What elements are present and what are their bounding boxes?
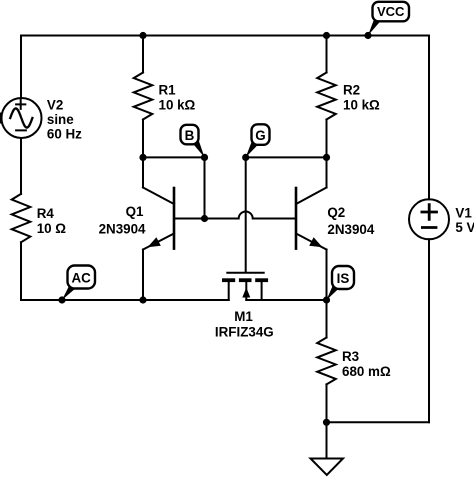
junction dot Q1 emitter on bottom wire xyxy=(139,296,146,303)
svg-text:V2: V2 xyxy=(47,97,63,112)
label Q2 value xyxy=(327,205,374,237)
svg-text:VCC: VCC xyxy=(377,4,405,19)
svg-text:5 V: 5 V xyxy=(455,220,474,235)
flag B xyxy=(181,125,199,145)
voltage source V2 sine 60 Hz xyxy=(2,98,42,138)
wire base rail Q1 to Q2 with hop over gate wire xyxy=(174,212,296,219)
wire M1 gate vertical xyxy=(245,157,247,272)
junction dot node G right xyxy=(323,154,330,161)
svg-text:2N3904: 2N3904 xyxy=(99,222,146,237)
junction dot node AC xyxy=(58,296,65,303)
wire R1 bottom lead to node B rail xyxy=(142,120,144,158)
resistor R1 xyxy=(134,73,153,120)
svg-text:IS: IS xyxy=(337,271,350,286)
transistor Q1 2N3904 xyxy=(143,188,174,250)
wire R2 top lead xyxy=(326,36,328,73)
transistor Q2 2N3904 xyxy=(296,188,327,250)
flag AC xyxy=(68,266,96,289)
wire R4 to bottom left corner xyxy=(20,242,22,300)
junction dot node IS xyxy=(323,296,330,303)
resistor R4 xyxy=(12,194,31,242)
label R4 value xyxy=(37,206,67,236)
wire bottom right rail xyxy=(327,421,430,423)
svg-text:sine: sine xyxy=(47,112,74,127)
svg-text:R2: R2 xyxy=(343,83,360,98)
wire ground lead xyxy=(326,422,328,458)
V2 left-edge mark xyxy=(0,113,2,124)
svg-text:G: G xyxy=(255,128,265,143)
resistor R2 xyxy=(317,73,336,120)
flag pointer G xyxy=(246,142,258,158)
wire node G horizontal xyxy=(246,156,327,158)
svg-text:Q2: Q2 xyxy=(327,205,345,220)
label R3 value xyxy=(342,349,391,379)
wire top rail VCC xyxy=(21,35,429,37)
wire Q1 emitter lead down xyxy=(142,250,144,301)
wire Q1 collector lead xyxy=(142,157,144,187)
svg-text:R4: R4 xyxy=(37,206,55,221)
svg-text:2N3904: 2N3904 xyxy=(327,222,374,237)
flag G xyxy=(252,124,270,145)
svg-text:V1: V1 xyxy=(455,205,472,220)
wire R3 bottom lead xyxy=(326,384,328,422)
svg-text:10 kΩ: 10 kΩ xyxy=(343,98,380,113)
label R2 value xyxy=(343,83,380,113)
wire node B horizontal xyxy=(143,156,205,158)
wire V1 top lead from VCC rail xyxy=(428,36,430,200)
flag IS xyxy=(332,266,354,289)
wire node B drop to base rail xyxy=(204,157,206,218)
label R1 value xyxy=(159,83,196,113)
ground symbol xyxy=(311,459,344,476)
flag pointer VCC xyxy=(368,18,380,36)
svg-text:M1: M1 xyxy=(234,309,253,324)
wire V1 bottom lead xyxy=(428,239,430,422)
wire left column top (V2 positive lead) xyxy=(20,36,22,99)
label Q1 value xyxy=(99,204,146,237)
wire V2 to R4 xyxy=(20,138,22,194)
svg-text:IRFIZ34G: IRFIZ34G xyxy=(215,325,274,340)
voltage source V1 5 V xyxy=(409,199,449,239)
flag VCC xyxy=(373,2,410,22)
wire bottom left (AC net to M1 drain) xyxy=(21,299,229,301)
label V2 value xyxy=(47,97,82,141)
junction dot top R1 xyxy=(139,32,146,39)
junction dot VCC xyxy=(364,32,371,39)
junction dot ground rail xyxy=(323,419,330,426)
svg-text:680 mΩ: 680 mΩ xyxy=(342,364,391,379)
svg-text:B: B xyxy=(185,128,195,143)
svg-text:Q1: Q1 xyxy=(126,204,144,219)
junction dot node B xyxy=(201,154,208,161)
svg-text:10 kΩ: 10 kΩ xyxy=(159,98,196,113)
svg-text:R1: R1 xyxy=(159,83,177,98)
svg-text:10 Ω: 10 Ω xyxy=(37,221,67,236)
junction dot base rail xyxy=(201,215,208,222)
flag pointer B xyxy=(193,140,205,158)
mosfet M1 IRFIZ34G xyxy=(222,273,268,300)
wire node IS to R3 xyxy=(326,300,328,338)
flag pointer AC xyxy=(62,284,75,300)
junction dot node B left xyxy=(139,154,146,161)
flag pointer IS xyxy=(327,285,339,301)
svg-text:60 Hz: 60 Hz xyxy=(47,126,82,141)
svg-text:R3: R3 xyxy=(342,349,359,364)
wire M1 source to node IS xyxy=(246,299,326,301)
resistor R3 xyxy=(317,338,336,385)
wire R1 top lead xyxy=(142,36,144,73)
label M1 value xyxy=(215,309,274,340)
label V1 value xyxy=(455,205,474,235)
junction dot top R2 xyxy=(323,32,330,39)
junction dot node G xyxy=(242,154,249,161)
wire R2 bottom lead to node G rail xyxy=(326,120,328,158)
svg-text:AC: AC xyxy=(72,270,92,285)
wire Q2 emitter lead down to node IS xyxy=(326,250,328,301)
wire Q2 collector lead xyxy=(326,157,328,187)
